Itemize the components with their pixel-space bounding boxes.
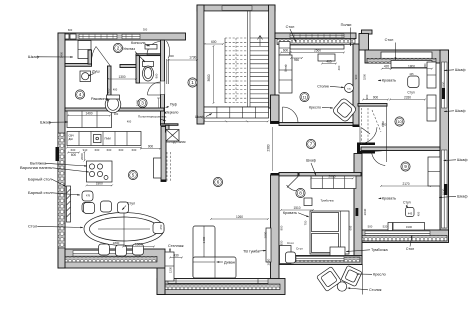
- svg-text:1: 1: [191, 80, 194, 85]
- svg-text:ПММ: ПММ: [105, 137, 111, 141]
- svg-text:900: 900: [365, 94, 369, 99]
- svg-text:Холодильник: Холодильник: [166, 140, 186, 144]
- svg-text:Шкаф: Шкаф: [284, 63, 288, 71]
- svg-text:Шкаф: Шкаф: [40, 120, 52, 125]
- svg-text:800: 800: [280, 225, 284, 230]
- svg-text:Стол: Стол: [286, 25, 295, 29]
- svg-text:520: 520: [383, 225, 388, 229]
- svg-text:3: 3: [141, 101, 144, 106]
- svg-text:1800: 1800: [113, 241, 120, 245]
- svg-text:Диван: Диван: [224, 261, 235, 265]
- svg-text:695: 695: [349, 225, 353, 230]
- svg-text:1400: 1400: [85, 112, 92, 116]
- svg-text:650: 650: [159, 224, 163, 229]
- svg-text:Унитаз: Унитаз: [123, 47, 135, 51]
- svg-text:Столик: Столик: [369, 288, 382, 292]
- svg-text:Стул: Стул: [296, 247, 303, 251]
- svg-text:1730: 1730: [189, 56, 196, 60]
- svg-text:Шкаф: Шкаф: [457, 158, 467, 162]
- svg-text:Варочная панель: Варочная панель: [20, 165, 52, 170]
- svg-text:ДШ: ДШ: [69, 137, 74, 141]
- svg-text:1510: 1510: [293, 206, 300, 210]
- svg-text:Стол: Стол: [28, 224, 38, 229]
- svg-text:400: 400: [127, 120, 132, 124]
- svg-text:600: 600: [71, 153, 77, 157]
- svg-text:445: 445: [409, 73, 414, 76]
- svg-text:Барный стол: Барный стол: [28, 190, 52, 195]
- svg-text:900: 900: [148, 145, 154, 149]
- svg-text:Кровать: Кровать: [382, 197, 396, 201]
- svg-text:6: 6: [217, 180, 220, 185]
- svg-text:600: 600: [107, 148, 112, 152]
- svg-text:400: 400: [107, 88, 111, 93]
- svg-text:478: 478: [86, 195, 91, 198]
- svg-text:Консоль: Консоль: [131, 41, 146, 45]
- svg-text:Кровать: Кровать: [382, 79, 396, 83]
- svg-text:950: 950: [280, 240, 284, 245]
- svg-text:Стул: Стул: [127, 202, 135, 206]
- svg-text:465: 465: [326, 60, 332, 64]
- svg-text:11: 11: [302, 95, 306, 100]
- svg-text:1800: 1800: [96, 181, 103, 185]
- svg-text:430: 430: [173, 254, 179, 258]
- svg-text:1400: 1400: [202, 236, 206, 243]
- svg-text:Стул: Стул: [403, 201, 411, 205]
- svg-text:Кровать: Кровать: [283, 211, 297, 215]
- svg-text:2000: 2000: [264, 231, 268, 238]
- svg-text:400: 400: [113, 88, 118, 92]
- svg-text:Кресло: Кресло: [309, 106, 321, 110]
- svg-text:ТВ тумба: ТВ тумба: [243, 250, 260, 254]
- svg-text:1160: 1160: [381, 121, 385, 127]
- svg-text:600: 600: [132, 148, 137, 152]
- svg-text:300: 300: [169, 54, 174, 58]
- svg-text:1900: 1900: [406, 225, 413, 229]
- svg-text:500: 500: [368, 225, 373, 229]
- svg-text:2005: 2005: [328, 174, 335, 178]
- svg-text:900: 900: [354, 74, 358, 79]
- svg-text:Шкаф: Шкаф: [195, 115, 205, 119]
- svg-text:Кресло: Кресло: [373, 273, 386, 277]
- svg-text:2330: 2330: [404, 96, 411, 100]
- svg-text:2: 2: [117, 46, 120, 51]
- svg-text:Стол: Стол: [287, 241, 294, 245]
- svg-text:1800: 1800: [408, 65, 415, 69]
- svg-text:450: 450: [417, 211, 421, 216]
- svg-text:Стеллаж: Стеллаж: [168, 244, 184, 248]
- svg-text:600: 600: [283, 48, 289, 52]
- svg-text:1260: 1260: [236, 215, 243, 219]
- svg-text:Столик: Столик: [317, 85, 329, 89]
- svg-text:Раковина: Раковина: [91, 97, 109, 101]
- svg-text:445: 445: [408, 212, 413, 216]
- svg-text:750: 750: [304, 220, 308, 225]
- svg-text:1400: 1400: [60, 51, 64, 58]
- svg-text:Полотенцесушитель: Полотенцесушитель: [138, 115, 167, 119]
- svg-text:600: 600: [211, 40, 217, 44]
- svg-text:Шкаф: Шкаф: [455, 109, 465, 113]
- svg-text:1800: 1800: [442, 81, 446, 88]
- svg-text:2380: 2380: [267, 144, 271, 151]
- svg-text:2560: 2560: [314, 48, 321, 52]
- svg-text:Тумбочка: Тумбочка: [321, 199, 334, 203]
- svg-text:600: 600: [68, 28, 73, 32]
- svg-text:Стол: Стол: [406, 247, 414, 251]
- svg-text:600: 600: [95, 148, 100, 152]
- svg-text:300: 300: [143, 28, 148, 32]
- svg-text:Стул: Стул: [407, 91, 414, 95]
- svg-text:2030: 2030: [363, 208, 367, 215]
- svg-text:9: 9: [404, 164, 407, 169]
- svg-text:4: 4: [79, 92, 82, 97]
- svg-text:400: 400: [337, 65, 341, 70]
- svg-text:300: 300: [114, 112, 119, 116]
- svg-text:3600: 3600: [207, 74, 211, 81]
- svg-text:2170: 2170: [402, 182, 409, 186]
- svg-text:5: 5: [132, 173, 135, 178]
- svg-text:8: 8: [299, 191, 302, 196]
- svg-text:Шкаф: Шкаф: [28, 54, 40, 59]
- svg-text:Зеркало: Зеркало: [166, 111, 179, 115]
- svg-text:СВЧ: СВЧ: [69, 134, 74, 138]
- svg-text:Стол: Стол: [385, 38, 394, 42]
- svg-text:Душ: Душ: [92, 70, 100, 74]
- svg-text:2020: 2020: [267, 258, 271, 265]
- svg-text:900: 900: [373, 96, 379, 100]
- svg-text:600: 600: [119, 148, 124, 152]
- svg-text:2030: 2030: [442, 188, 446, 195]
- svg-text:960: 960: [155, 73, 159, 78]
- svg-text:Барный стол: Барный стол: [28, 177, 52, 182]
- svg-text:7: 7: [310, 142, 313, 147]
- svg-text:2000: 2000: [80, 153, 84, 160]
- svg-text:Шкаф: Шкаф: [455, 68, 465, 72]
- svg-text:950: 950: [294, 58, 300, 62]
- svg-text:Тумбочка: Тумбочка: [371, 248, 388, 252]
- svg-text:Пуф: Пуф: [170, 103, 177, 107]
- svg-text:3200: 3200: [363, 73, 367, 80]
- svg-text:1230: 1230: [169, 266, 173, 273]
- svg-text:600: 600: [71, 148, 76, 152]
- svg-text:1300: 1300: [135, 243, 142, 247]
- svg-text:Шкаф: Шкаф: [457, 195, 467, 199]
- svg-text:200: 200: [424, 63, 427, 68]
- svg-text:Полки: Полки: [341, 23, 352, 27]
- svg-text:420: 420: [384, 65, 390, 69]
- svg-text:Шкаф: Шкаф: [306, 159, 316, 163]
- svg-text:1300: 1300: [118, 75, 125, 79]
